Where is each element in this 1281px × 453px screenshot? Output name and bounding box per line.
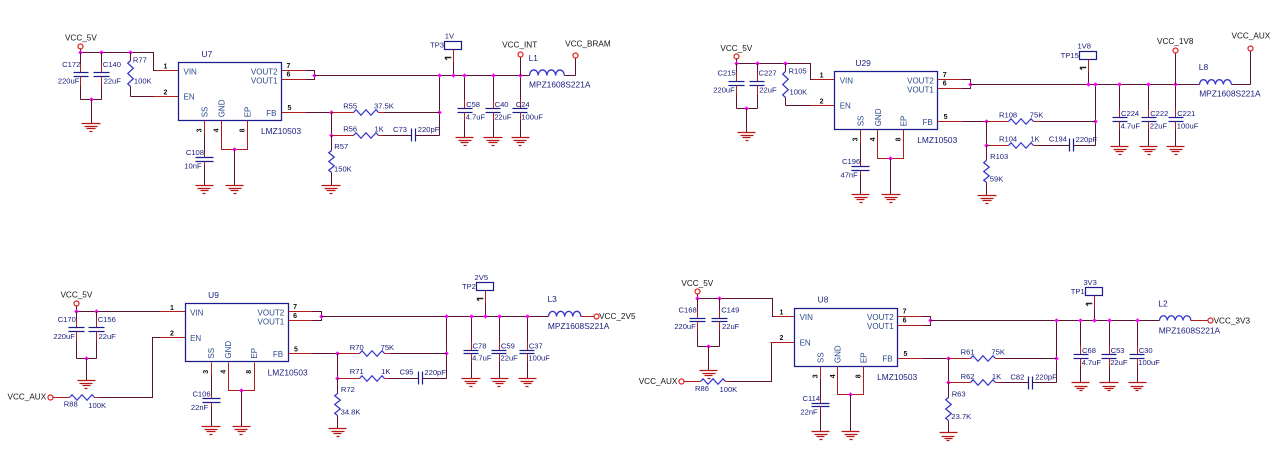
pin 8 stub (EP) — [247, 121, 249, 134]
svg-text:R63: R63 — [952, 390, 966, 399]
svg-text:L8: L8 — [1199, 62, 1209, 72]
pin number 8 — [246, 370, 253, 374]
pin name EP — [250, 348, 259, 359]
pin name GND — [224, 341, 233, 359]
inductor L8 label — [1199, 62, 1209, 72]
ground — [226, 186, 244, 194]
svg-text:2: 2 — [170, 331, 174, 338]
svg-text:3V3: 3V3 — [1083, 278, 1097, 287]
wire — [99, 338, 161, 398]
pin number 1 — [170, 305, 174, 312]
svg-text:TP2: TP2 — [462, 282, 476, 291]
net VCC_AUX label (U9) — [8, 393, 47, 402]
svg-text:VIN: VIN — [190, 309, 204, 318]
svg-text:5: 5 — [944, 114, 948, 121]
wire (test point stem) — [453, 50, 455, 76]
ground — [882, 195, 901, 203]
pin 5 stub (FB) — [282, 112, 307, 114]
wire — [1040, 121, 1096, 123]
pin 2 stub — [771, 342, 795, 344]
svg-text:MPZ1608S221A: MPZ1608S221A — [548, 321, 610, 331]
pin name EP — [860, 352, 869, 363]
pin number 2 — [780, 335, 784, 342]
pin number 3 — [196, 128, 203, 132]
pin number 4 — [830, 374, 837, 378]
svg-text:220pF: 220pF — [418, 125, 440, 134]
pin 5 stub (FB) — [289, 353, 313, 355]
terminal VCC_1V8 — [1173, 48, 1178, 53]
pin 6 stub — [938, 88, 963, 90]
wire — [91, 100, 93, 124]
op-amp/regulator U8 LMZ10503 box — [795, 309, 898, 367]
svg-text:23.7K: 23.7K — [951, 412, 971, 421]
svg-text:4: 4 — [220, 370, 227, 374]
svg-text:VCC_5V: VCC_5V — [681, 279, 713, 288]
svg-text:22uF: 22uF — [494, 112, 512, 121]
terminal VCC_5V (U7) — [78, 44, 83, 49]
wire — [331, 113, 333, 136]
wire — [1175, 54, 1177, 85]
svg-text:GND: GND — [224, 341, 233, 359]
svg-text:7: 7 — [903, 309, 907, 316]
svg-text:1K: 1K — [375, 125, 384, 134]
wire — [86, 359, 88, 381]
svg-text:1V8: 1V8 — [1077, 42, 1091, 51]
wire — [1038, 145, 1070, 147]
junction — [239, 388, 244, 393]
junction — [99, 50, 104, 55]
svg-text:8: 8 — [246, 370, 253, 374]
pin 1 stub — [813, 79, 835, 81]
test point TP3 — [430, 40, 461, 49]
ground — [196, 186, 214, 194]
wire — [1000, 382, 1029, 384]
test point TP1 — [1071, 287, 1103, 296]
svg-text:4: 4 — [870, 137, 877, 141]
svg-text:SS: SS — [200, 107, 209, 118]
test point pin 1 number — [477, 299, 484, 301]
pin number 7 — [903, 309, 907, 316]
svg-text:EP: EP — [900, 116, 909, 127]
net VCC_3V3 label — [1214, 317, 1251, 326]
junction — [946, 356, 951, 361]
inductor L1 — [530, 70, 565, 76]
test point TP2 — [462, 282, 494, 291]
svg-text:100uF: 100uF — [521, 112, 543, 121]
svg-text:100K: 100K — [88, 401, 106, 410]
net 3V3 label — [1083, 278, 1097, 287]
pin number 1 — [820, 73, 824, 80]
svg-text:1: 1 — [170, 305, 174, 312]
net 1V8 label — [1077, 42, 1091, 51]
junction — [78, 50, 83, 55]
svg-text:R71: R71 — [350, 367, 364, 376]
svg-text:VCC_AUX: VCC_AUX — [8, 393, 47, 402]
capacitor C224 4.7uF — [1113, 85, 1141, 147]
capacitor C53 22uF — [1102, 321, 1128, 383]
resistor R71 1K — [338, 367, 391, 381]
pin 6 stub — [282, 79, 307, 81]
pin number 1 — [163, 64, 167, 71]
capacitor C149 22uF — [712, 299, 740, 347]
wire — [737, 108, 758, 110]
wire — [520, 58, 522, 76]
svg-text:6: 6 — [943, 81, 947, 88]
wire — [313, 353, 338, 355]
svg-text:TP1: TP1 — [1071, 287, 1085, 296]
pin 3 stub (SS) — [204, 121, 206, 134]
svg-text:4: 4 — [214, 128, 221, 132]
part value LMZ10503 — [917, 135, 957, 145]
svg-text:3: 3 — [813, 374, 820, 378]
svg-text:SS: SS — [207, 348, 216, 359]
svg-text:C82: C82 — [1010, 372, 1024, 381]
wire — [416, 135, 440, 137]
pin name VIN — [800, 313, 814, 322]
ground — [519, 379, 537, 387]
junction — [1146, 82, 1151, 87]
pin number 5 — [294, 347, 298, 354]
pin 6 stub — [289, 320, 313, 322]
capacitor C168 220uF — [674, 299, 705, 347]
pin number 7 — [293, 304, 297, 311]
ground — [978, 196, 997, 204]
pin name VOUT2 — [258, 309, 285, 318]
wire — [423, 378, 447, 380]
wire — [838, 380, 864, 395]
svg-text:1: 1 — [163, 64, 167, 71]
inductor L1 value — [529, 80, 591, 90]
svg-text:1K: 1K — [992, 372, 1001, 381]
wire — [446, 317, 448, 379]
svg-text:LMZ10503: LMZ10503 — [917, 135, 957, 145]
net VCC_5V label (U7) — [65, 34, 97, 43]
wire — [76, 306, 78, 312]
junction — [525, 314, 530, 319]
wire — [730, 343, 772, 382]
wire — [229, 375, 255, 391]
ground — [512, 138, 530, 146]
pin 4 stub (GND) — [228, 363, 230, 375]
pin number 6 — [943, 81, 947, 88]
svg-text:2: 2 — [780, 335, 784, 342]
net 2V5 label — [475, 273, 489, 282]
svg-text:1V: 1V — [445, 31, 455, 40]
svg-text:47nF: 47nF — [840, 171, 858, 180]
resistor R88 100K — [64, 395, 106, 410]
terminal VCC_5V (U29) — [734, 54, 739, 59]
svg-text:VIN: VIN — [840, 76, 854, 85]
svg-text:C194: C194 — [1049, 135, 1067, 144]
svg-text:TP15: TP15 — [1061, 51, 1079, 60]
svg-text:EP: EP — [243, 107, 252, 118]
test point pin 1 number — [1086, 304, 1093, 306]
pin name VOUT2 — [251, 67, 278, 76]
capacitor C82 220pF — [1010, 372, 1057, 389]
svg-text:FB: FB — [922, 118, 932, 127]
svg-text:150K: 150K — [334, 165, 352, 174]
svg-text:220pF: 220pF — [424, 368, 446, 377]
wire — [890, 159, 892, 195]
wire — [948, 359, 950, 383]
wire — [1033, 382, 1057, 384]
svg-text:4.7uF: 4.7uF — [472, 354, 492, 363]
junction — [1093, 119, 1098, 124]
wire — [439, 76, 441, 136]
capacitor C172 220uF — [58, 53, 89, 100]
svg-text:FB: FB — [273, 350, 283, 359]
svg-text:C222: C222 — [1150, 109, 1168, 118]
inductor L2 — [1160, 316, 1191, 321]
wire — [391, 353, 447, 355]
pin 8 stub (EP) — [254, 363, 256, 375]
pin name GND — [834, 345, 843, 363]
pin 4 stub (GND) — [221, 121, 223, 134]
pin 6 stub — [898, 325, 923, 327]
resistor R61 75K — [949, 347, 1005, 361]
svg-text:C149: C149 — [721, 306, 739, 315]
wire — [1074, 145, 1096, 147]
svg-text:C108: C108 — [186, 148, 204, 157]
svg-text:C170: C170 — [58, 315, 76, 324]
svg-text:C40: C40 — [495, 100, 509, 109]
pin number 6 — [287, 72, 291, 79]
junction — [84, 356, 89, 361]
inductor L8 value — [1199, 89, 1261, 99]
svg-text:L1: L1 — [529, 53, 539, 63]
svg-text:VOUT2: VOUT2 — [907, 76, 934, 85]
pin name SS — [200, 107, 209, 118]
ground — [484, 138, 503, 146]
svg-text:C37: C37 — [529, 342, 543, 351]
junction (VOUT strap) — [319, 314, 324, 319]
op-amp/regulator U7 LMZ10503 box — [179, 63, 282, 121]
junction — [444, 314, 449, 319]
svg-text:1K: 1K — [1030, 134, 1039, 143]
junction — [437, 110, 442, 115]
junction — [695, 296, 700, 301]
junction — [89, 97, 94, 102]
wire (test point stem) — [485, 291, 487, 317]
wire (output rail) — [971, 84, 1200, 86]
svg-text:22uF: 22uF — [1150, 121, 1168, 130]
terminal VCC_5V (U8) — [695, 289, 700, 294]
junction — [1135, 318, 1140, 323]
svg-text:C215: C215 — [718, 69, 736, 78]
capacitor C215 220uF — [713, 64, 744, 109]
svg-text:GND: GND — [218, 99, 227, 117]
pin number 3 — [813, 374, 820, 378]
svg-text:1: 1 — [820, 73, 824, 80]
svg-text:1: 1 — [780, 309, 784, 316]
pin number 7 — [287, 63, 291, 70]
ground — [491, 379, 509, 387]
inductor L1 label — [529, 53, 539, 63]
wire — [337, 354, 339, 379]
svg-text:VOUT2: VOUT2 — [251, 67, 278, 76]
svg-text:EN: EN — [184, 93, 195, 102]
svg-text:C172: C172 — [62, 60, 80, 69]
pin name VIN — [840, 76, 854, 85]
svg-text:LMZ10503: LMZ10503 — [268, 368, 308, 378]
svg-text:10nF: 10nF — [184, 162, 202, 171]
wire (output rail) — [931, 320, 1160, 322]
svg-text:VIN: VIN — [800, 313, 814, 322]
refdes U9 — [208, 290, 219, 300]
pin number 4 — [220, 370, 227, 374]
net 1V label — [445, 31, 455, 40]
ground — [456, 138, 474, 146]
svg-text:EN: EN — [800, 339, 811, 348]
wire — [963, 80, 971, 89]
part value LMZ10503 — [877, 372, 917, 382]
pin name SS — [857, 116, 866, 127]
svg-text:LMZ10503: LMZ10503 — [877, 372, 917, 382]
svg-text:R57: R57 — [334, 142, 348, 151]
pin 1 stub — [161, 311, 186, 313]
svg-text:MPZ1608S221A: MPZ1608S221A — [1159, 325, 1221, 335]
svg-text:7: 7 — [293, 304, 297, 311]
pin 7 stub — [938, 79, 963, 81]
net VCC_1V8 label — [1157, 37, 1194, 46]
svg-text:C68: C68 — [1082, 346, 1096, 355]
resistor R86 100K — [695, 379, 737, 394]
svg-text:6: 6 — [903, 317, 907, 324]
pin 1 stub — [156, 70, 179, 72]
pin 7 stub — [289, 311, 313, 313]
svg-text:22nF: 22nF — [800, 407, 818, 416]
pin 1 stub — [775, 316, 795, 318]
wire — [786, 105, 811, 107]
svg-text:C53: C53 — [1111, 346, 1125, 355]
junction — [483, 314, 488, 319]
capacitor C30 100uF — [1130, 321, 1161, 383]
pin 2 stub — [811, 105, 835, 107]
capacitor C140 22uF — [94, 53, 122, 100]
wire — [1095, 85, 1097, 146]
capacitor C40 22uF — [486, 76, 512, 138]
svg-text:C114: C114 — [803, 394, 821, 403]
svg-text:R103: R103 — [990, 152, 1008, 161]
capacitor C78 4.7uF — [464, 317, 492, 379]
svg-text:22uF: 22uF — [759, 85, 777, 94]
wire (output rail) — [322, 316, 549, 318]
ground — [738, 133, 756, 141]
terminal VCC_AUX (U8) — [679, 379, 684, 384]
svg-text:MPZ1608S221A: MPZ1608S221A — [1199, 89, 1261, 99]
junction — [1093, 82, 1098, 87]
wire — [81, 99, 102, 101]
junction — [497, 314, 502, 319]
ground — [812, 432, 830, 440]
svg-text:U8: U8 — [818, 295, 829, 305]
pin 8 stub (EP) — [903, 130, 905, 143]
svg-text:22nF: 22nF — [191, 403, 209, 412]
pin 4 stub (GND) — [837, 367, 839, 380]
svg-text:VCC_2V5: VCC_2V5 — [599, 312, 636, 321]
svg-text:U7: U7 — [202, 49, 213, 59]
capacitor C114 22nF — [800, 380, 829, 432]
wire — [850, 395, 852, 432]
svg-text:R72: R72 — [341, 385, 355, 394]
junction (VOUT strap) — [968, 82, 973, 87]
svg-text:34.8K: 34.8K — [341, 407, 361, 416]
capacitor C68 4.7uF — [1074, 321, 1102, 383]
net VCC_BRAM label — [565, 39, 611, 48]
net VCC_5V label (U29) — [720, 44, 752, 53]
inductor L2 value — [1159, 325, 1221, 335]
svg-text:VCC_5V: VCC_5V — [65, 34, 97, 43]
capacitor C37 100uF — [520, 317, 551, 379]
svg-text:FB: FB — [882, 355, 892, 364]
capacitor C170 220uF — [53, 312, 84, 359]
svg-text:5: 5 — [904, 351, 908, 358]
resistor R104 1K — [987, 134, 1040, 148]
refdes U8 — [818, 295, 829, 305]
wire — [726, 381, 730, 383]
wire — [878, 143, 904, 159]
wire — [383, 135, 412, 137]
wire — [313, 312, 322, 321]
svg-text:EN: EN — [840, 102, 851, 111]
svg-text:2V5: 2V5 — [475, 273, 489, 282]
pin name VIN — [184, 67, 198, 76]
svg-text:75K: 75K — [1030, 111, 1044, 120]
net VCC_AUX label — [1232, 32, 1271, 41]
svg-text:VCC_5V: VCC_5V — [60, 291, 92, 300]
junction — [848, 392, 853, 397]
wire (test point stem) — [1088, 60, 1090, 85]
junction — [755, 61, 760, 66]
ground — [233, 427, 251, 435]
wire — [53, 397, 70, 399]
wire — [737, 64, 813, 80]
resistor R62 1K — [949, 372, 1002, 385]
svg-text:37.5K: 37.5K — [374, 102, 394, 111]
part value LMZ10503 — [261, 126, 301, 136]
svg-text:75K: 75K — [381, 343, 395, 352]
junction (VOUT strap) — [312, 73, 317, 78]
pin name FB — [273, 350, 283, 359]
svg-text:VCC_5V: VCC_5V — [720, 44, 752, 53]
svg-text:8: 8 — [896, 137, 903, 141]
wire — [95, 397, 99, 399]
svg-text:4.7uF: 4.7uF — [466, 112, 486, 121]
ground — [1111, 147, 1129, 155]
svg-text:C58: C58 — [466, 100, 480, 109]
resistor R103 59K — [984, 146, 1009, 196]
op-amp/regulator U9 LMZ10503 box — [186, 304, 289, 362]
wire — [389, 378, 419, 380]
svg-text:VOUT1: VOUT1 — [251, 76, 278, 85]
ground — [329, 429, 347, 437]
junction — [734, 61, 739, 66]
svg-text:C221: C221 — [1177, 109, 1195, 118]
pin name VOUT1 — [867, 322, 894, 331]
pin name EN — [190, 334, 201, 343]
svg-text:VCC_AUX: VCC_AUX — [1232, 32, 1271, 41]
pin number 8 — [856, 374, 863, 378]
svg-text:75K: 75K — [991, 347, 1005, 356]
wire — [80, 49, 82, 53]
svg-text:R62: R62 — [961, 372, 975, 381]
junction — [1054, 356, 1059, 361]
svg-text:EP: EP — [860, 352, 869, 363]
pin number 6 — [293, 313, 297, 320]
svg-text:100K: 100K — [720, 385, 738, 394]
terminal VCC_AUX — [1248, 46, 1253, 51]
pin number 5 — [944, 114, 948, 121]
